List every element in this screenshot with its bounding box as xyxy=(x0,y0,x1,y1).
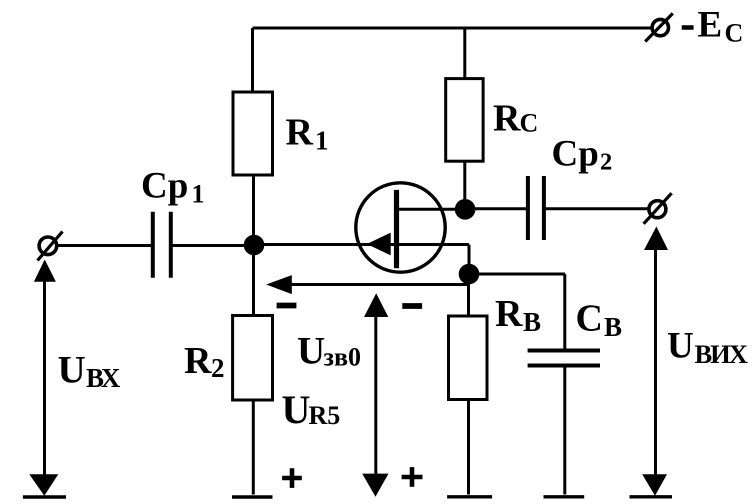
svg-text:R: R xyxy=(286,112,314,154)
svg-text:C: C xyxy=(520,109,539,138)
label Uvx xyxy=(58,348,121,393)
ground under Uvx arrow xyxy=(23,495,66,498)
svg-text:Cp: Cp xyxy=(552,134,599,175)
terminal -Ec (circle with slash) xyxy=(645,13,673,41)
label RB xyxy=(495,293,541,337)
svg-text:R: R xyxy=(184,340,212,382)
arrow Uzv0 (vertical double arrow) xyxy=(362,293,388,496)
wire down to CB top plate xyxy=(563,274,566,350)
wire drain tap to RC node xyxy=(398,208,465,211)
wire Cp1 to gate node xyxy=(173,244,254,247)
wire top rail to RC xyxy=(463,28,466,79)
arrow Uvx (input voltage double arrow) xyxy=(29,260,58,496)
resistor RB xyxy=(449,316,488,400)
minus sign right (near Uzv0 arrow) xyxy=(402,303,422,309)
wire source node down to RB xyxy=(467,274,470,316)
wire CB bottom to ground xyxy=(563,365,566,495)
svg-text:U: U xyxy=(58,348,86,391)
wire source corner down to source node xyxy=(468,245,471,275)
svg-text:Cp: Cp xyxy=(141,165,188,206)
terminal input (circle with slash) xyxy=(38,232,63,261)
svg-text:C: C xyxy=(725,19,744,48)
svg-text:U: U xyxy=(282,387,311,432)
svg-text:2: 2 xyxy=(211,353,225,383)
capacitor CB xyxy=(528,351,600,366)
ground under RB xyxy=(447,495,492,498)
svg-text:зв0: зв0 xyxy=(324,343,362,372)
svg-text:C: C xyxy=(576,298,603,340)
ground under CB xyxy=(544,495,585,498)
transistor gate arrowhead xyxy=(367,233,391,256)
label Cp1 xyxy=(141,165,205,208)
wire top supply rail xyxy=(253,27,653,30)
wire Cp2 to output terminal xyxy=(546,207,649,210)
svg-text:ВИХ: ВИХ xyxy=(695,339,748,369)
resistor R2 xyxy=(233,316,273,401)
capacitor Cp2 xyxy=(528,176,544,240)
wire R2 bottom to ground xyxy=(252,400,255,495)
minus sign left (near feedback arrowhead) xyxy=(277,303,297,309)
svg-text:B: B xyxy=(604,312,622,342)
svg-text:B: B xyxy=(523,307,541,337)
label RC xyxy=(493,97,538,139)
label R2 xyxy=(184,340,225,383)
svg-text:E: E xyxy=(698,5,723,46)
svg-text:1: 1 xyxy=(192,179,205,208)
label CB xyxy=(576,298,623,342)
svg-text:1: 1 xyxy=(315,126,329,156)
svg-text:R5: R5 xyxy=(309,401,341,430)
svg-text:R: R xyxy=(495,293,523,335)
terminal output (circle with slash) xyxy=(644,193,672,224)
wire top rail to R1 xyxy=(251,28,254,93)
resistor RC xyxy=(446,79,483,162)
junction gate node xyxy=(244,235,265,256)
label Uvyh xyxy=(667,325,748,369)
plus sign left (under R2, UR5 polarity) xyxy=(282,468,302,488)
plus sign right (under Uzv0 arrow) xyxy=(402,467,423,487)
capacitor Cp1 xyxy=(153,212,171,278)
svg-text:U: U xyxy=(297,330,325,373)
ground under Uvyh arrow xyxy=(630,495,673,498)
junction drain node xyxy=(455,199,476,220)
wire source node to CB branch xyxy=(469,273,565,276)
feedback arrow wire (gate-source voltage) xyxy=(290,283,469,286)
wire RB bottom to ground xyxy=(467,400,470,495)
junction source node xyxy=(459,264,480,285)
transistor VT circle xyxy=(356,183,445,272)
svg-text:R: R xyxy=(493,97,521,139)
label UR5 xyxy=(282,387,341,432)
label R1 xyxy=(286,112,329,156)
label Cp2 xyxy=(552,134,613,176)
ground under R2 xyxy=(232,495,273,498)
wire gate node to transistor gate and source corner xyxy=(254,243,469,246)
svg-text:ВХ: ВХ xyxy=(86,363,121,393)
transistor channel bar xyxy=(394,190,399,268)
resistor R1 xyxy=(233,92,273,175)
wire input terminal to Cp1 xyxy=(57,244,152,247)
label -Ec xyxy=(682,5,744,48)
feedback arrowhead xyxy=(266,275,292,294)
svg-text:2: 2 xyxy=(600,149,612,176)
svg-text:U: U xyxy=(667,325,694,366)
wire R1 bottom to gate node and to R2 xyxy=(252,175,255,316)
arrow Uvyh (output voltage double arrow) xyxy=(642,227,668,496)
wire drain node to Cp2 xyxy=(465,207,526,210)
label Uzv0 xyxy=(297,330,361,373)
wire RC bottom to drain node xyxy=(463,161,466,209)
